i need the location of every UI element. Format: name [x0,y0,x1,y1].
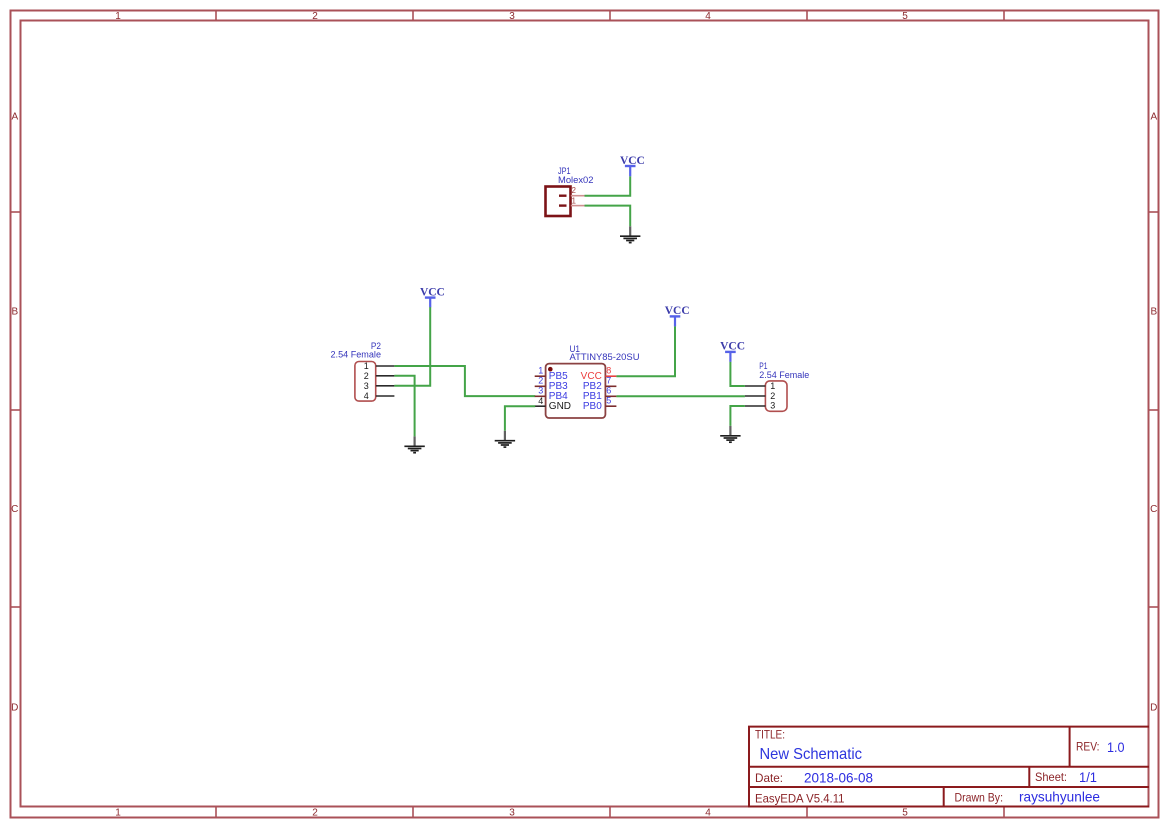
wire P1 pin3 to ground [730,406,745,426]
U1 pin 4 GND [535,396,571,412]
frame column labels top [115,11,908,22]
svg-text:GND: GND [549,401,571,412]
svg-text:3: 3 [364,381,369,391]
wire P2 pin2 to ground [394,376,414,437]
connector JP1 [546,166,594,216]
svg-text:2: 2 [770,391,775,401]
frame row labels right [1150,112,1157,714]
svg-text:raysuhyunlee: raysuhyunlee [1019,789,1100,805]
svg-text:Drawn By:: Drawn By: [955,791,1004,805]
svg-text:4: 4 [538,396,543,406]
svg-text:A: A [11,112,18,123]
wire U1 pin6 to P1 pin2 [616,395,745,397]
svg-text:Date:: Date: [755,771,783,785]
U1 pin 5 PB0 [583,396,617,413]
svg-text:1: 1 [770,381,775,391]
wire JP1 pin2 to VCC [585,176,631,196]
IC U1 ATTINY85 [546,344,640,418]
svg-text:3: 3 [538,386,543,396]
frame row labels left [11,112,18,714]
svg-text:2: 2 [312,808,318,819]
U1 pin 2 PB3 [535,376,568,393]
wire P1 pin1 to VCC [730,362,745,386]
ground (U1) [495,431,515,447]
svg-text:7: 7 [606,376,611,386]
ground (P1) [720,426,740,442]
connector P1 [745,361,809,411]
frame column labels bottom [115,808,908,819]
svg-text:2: 2 [538,376,543,386]
svg-text:1: 1 [538,366,543,376]
svg-text:1: 1 [115,11,121,22]
U1 pin 8 VCC [581,366,617,383]
U1 pin 3 PB4 [535,386,568,403]
svg-text:2.54 Female: 2.54 Female [759,370,809,380]
svg-text:Molex02: Molex02 [558,175,594,185]
wire P2 pin3 to VCC [394,307,430,386]
svg-text:TITLE:: TITLE: [755,728,785,742]
svg-text:4: 4 [705,11,711,22]
svg-text:1.0: 1.0 [1107,739,1125,755]
svg-text:3: 3 [509,808,515,819]
svg-text:B: B [1150,307,1157,318]
power VCC (JP1) [620,155,645,177]
svg-text:1: 1 [364,361,369,371]
svg-text:EasyEDA V5.4.11: EasyEDA V5.4.11 [755,792,845,806]
svg-text:2: 2 [312,11,318,22]
svg-text:3: 3 [770,401,775,411]
U1 pin 6 PB1 [583,386,617,403]
svg-text:2.54 Female: 2.54 Female [331,349,382,359]
svg-text:C: C [11,504,18,515]
svg-text:2: 2 [364,371,369,381]
svg-text:4: 4 [364,391,369,401]
title block lines [748,727,1149,807]
svg-text:1: 1 [115,808,121,819]
svg-text:New Schematic: New Schematic [760,746,863,763]
svg-text:5: 5 [902,11,908,22]
U1 pin 1 PB5 [535,366,568,383]
svg-text:D: D [11,703,18,714]
wire JP1 pin1 to ground [585,206,631,227]
U1 pin 7 PB2 [583,376,617,393]
svg-text:6: 6 [606,386,611,396]
wire P2 pin1 to U1 PB4 [394,366,535,396]
svg-text:ATTINY85-20SU: ATTINY85-20SU [570,352,640,362]
svg-text:PB0: PB0 [583,401,602,412]
svg-text:1/1: 1/1 [1079,769,1097,785]
wire U1 pin4 to ground [505,406,535,431]
power VCC (P2) [420,286,445,307]
svg-text:8: 8 [606,366,611,376]
svg-text:REV:: REV: [1076,740,1100,754]
svg-text:D: D [1150,703,1157,714]
ground (P2) [404,436,424,452]
svg-text:Sheet:: Sheet: [1035,770,1067,784]
ground (JP1) [620,226,640,242]
svg-text:5: 5 [606,396,611,406]
svg-text:5: 5 [902,808,908,819]
svg-text:3: 3 [509,11,515,22]
power VCC (P1) [720,341,745,362]
svg-text:1: 1 [572,196,577,205]
svg-text:C: C [1150,504,1157,515]
connector P2 [331,341,395,401]
svg-text:A: A [1150,112,1157,123]
svg-text:B: B [11,307,18,318]
wire U1 pin8 to VCC [616,326,675,376]
svg-text:4: 4 [705,808,711,819]
power VCC (U1) [665,305,690,326]
svg-text:2018-06-08: 2018-06-08 [804,770,873,786]
svg-text:2: 2 [572,186,577,195]
